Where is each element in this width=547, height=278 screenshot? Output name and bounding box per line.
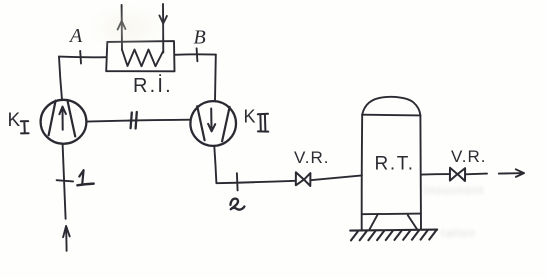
node label 2 (hand glyph): [230, 199, 244, 210]
wire A: exchanger left to corner: [59, 56, 106, 59]
svg-text:B: B: [194, 27, 206, 49]
compressor KI vanes: [49, 101, 76, 137]
svg-text:V.R.: V.R.: [294, 148, 330, 167]
KII subscript II glyph: [258, 114, 269, 132]
coolant in line (right, arrow down): [162, 4, 164, 53]
compressor KI arrow up: [59, 107, 66, 130]
heat exchanger coil zigzag: [122, 50, 163, 67]
compressor KII arrow down: [208, 109, 215, 132]
svg-text:K: K: [8, 110, 21, 131]
tank RT right wall: [419, 116, 422, 230]
tank RT right leg: [408, 215, 418, 229]
valve VR1 bowtie: [296, 172, 311, 186]
svg-text:K: K: [244, 107, 256, 127]
compressor KII vanes: [197, 106, 229, 141]
inlet arrow up: [63, 226, 70, 251]
wire B: exchanger right to corner: [175, 53, 216, 55]
outlet arrow right: [499, 169, 524, 177]
coolant out line (left, arrow up): [121, 5, 123, 50]
svg-text:A: A: [68, 25, 83, 47]
valve VR2 bowtie: [450, 168, 465, 181]
KI subscript I glyph: [21, 121, 29, 133]
svg-text:R.T.: R.T.: [375, 154, 415, 175]
coupling double-slash symbol: [131, 112, 137, 129]
tank RT left leg: [369, 215, 377, 230]
tick at node B: [196, 48, 199, 61]
tank RT dome: [362, 97, 420, 116]
ghost smudge top: [85, 3, 170, 53]
wire between compressors: [87, 120, 191, 122]
ground hatching: [351, 230, 436, 240]
wire: corner down to compressor KI: [59, 57, 62, 100]
compressor KI circle: [41, 100, 87, 144]
wire: corner down to compressor KII: [214, 55, 217, 101]
svg-text:R.İ.: R.İ.: [133, 74, 173, 97]
tank RT bottom: [362, 213, 421, 216]
tick at node 1: [57, 180, 74, 181]
tick at node A: [79, 51, 82, 64]
compressor KII circle: [190, 101, 236, 146]
heat exchanger R.I. rectangle: [106, 41, 174, 71]
svg-text:V.R.: V.R.: [451, 147, 487, 166]
ground line: [350, 230, 437, 231]
wire: KII down and right to valve: [214, 146, 295, 183]
tank RT shoulder chord: [362, 114, 420, 117]
node label 1 (hand glyph): [79, 170, 83, 183]
tick at node 2: [236, 173, 239, 190]
ghost bleed-through text bottom right: [441, 226, 476, 240]
wire valve VR1 to tank: [311, 175, 362, 180]
wire after valve VR2: [465, 173, 487, 176]
wire tank to valve VR2: [421, 173, 450, 176]
ghost bleed-through text right side: [424, 183, 484, 197]
wire: KI down to inlet: [63, 144, 66, 219]
tank RT left wall: [361, 115, 364, 230]
